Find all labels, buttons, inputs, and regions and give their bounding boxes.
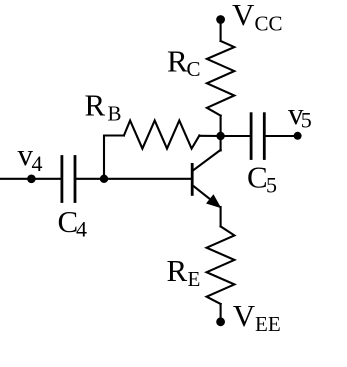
svg-text:V: V bbox=[233, 298, 256, 333]
capacitor C5 bbox=[251, 114, 264, 159]
terminal VEE bbox=[216, 317, 225, 326]
wire C4 to base bbox=[75, 178, 191, 180]
svg-text:B: B bbox=[108, 102, 122, 126]
svg-text:CC: CC bbox=[255, 11, 283, 35]
resistor RE bbox=[207, 226, 235, 304]
svg-text:EE: EE bbox=[255, 312, 281, 336]
label v5 bbox=[288, 96, 312, 132]
resistor RB bbox=[124, 121, 199, 149]
node base junction bbox=[100, 175, 108, 183]
transistor Q1 bbox=[192, 136, 220, 207]
svg-text:V: V bbox=[232, 0, 255, 32]
label v4 bbox=[18, 137, 43, 176]
wire collector node to C5 bbox=[221, 135, 252, 137]
node collector junction bbox=[216, 132, 224, 140]
svg-text:4: 4 bbox=[32, 151, 43, 176]
svg-text:R: R bbox=[167, 44, 188, 79]
label VEE bbox=[233, 298, 281, 336]
label C5 bbox=[247, 160, 277, 198]
svg-text:R: R bbox=[85, 88, 106, 123]
wire base node to RB bbox=[104, 136, 124, 179]
svg-text:4: 4 bbox=[76, 217, 87, 242]
svg-text:E: E bbox=[188, 267, 201, 291]
terminal VCC bbox=[216, 15, 225, 24]
wire RE to VEE bbox=[220, 304, 222, 322]
label C4 bbox=[58, 204, 88, 242]
wire emitter to RE bbox=[220, 207, 222, 226]
svg-text:R: R bbox=[167, 253, 188, 288]
wire RC to collector node bbox=[220, 116, 222, 136]
resistor RC bbox=[207, 41, 234, 116]
terminal v5 bbox=[294, 132, 302, 140]
wire VCC stub bbox=[220, 20, 222, 42]
svg-text:5: 5 bbox=[266, 172, 277, 197]
wire RB to collector node bbox=[199, 135, 220, 137]
wire C5 to v5 bbox=[264, 135, 297, 137]
label RC bbox=[167, 44, 201, 82]
wire input to C4 bbox=[0, 178, 62, 180]
label VCC bbox=[232, 0, 283, 35]
svg-text:5: 5 bbox=[301, 108, 312, 133]
terminal v4 bbox=[27, 175, 36, 184]
svg-text:C: C bbox=[187, 57, 201, 81]
svg-text:C: C bbox=[247, 160, 268, 195]
label RB bbox=[85, 88, 122, 126]
capacitor C4 bbox=[62, 157, 75, 202]
label RE bbox=[167, 253, 201, 291]
